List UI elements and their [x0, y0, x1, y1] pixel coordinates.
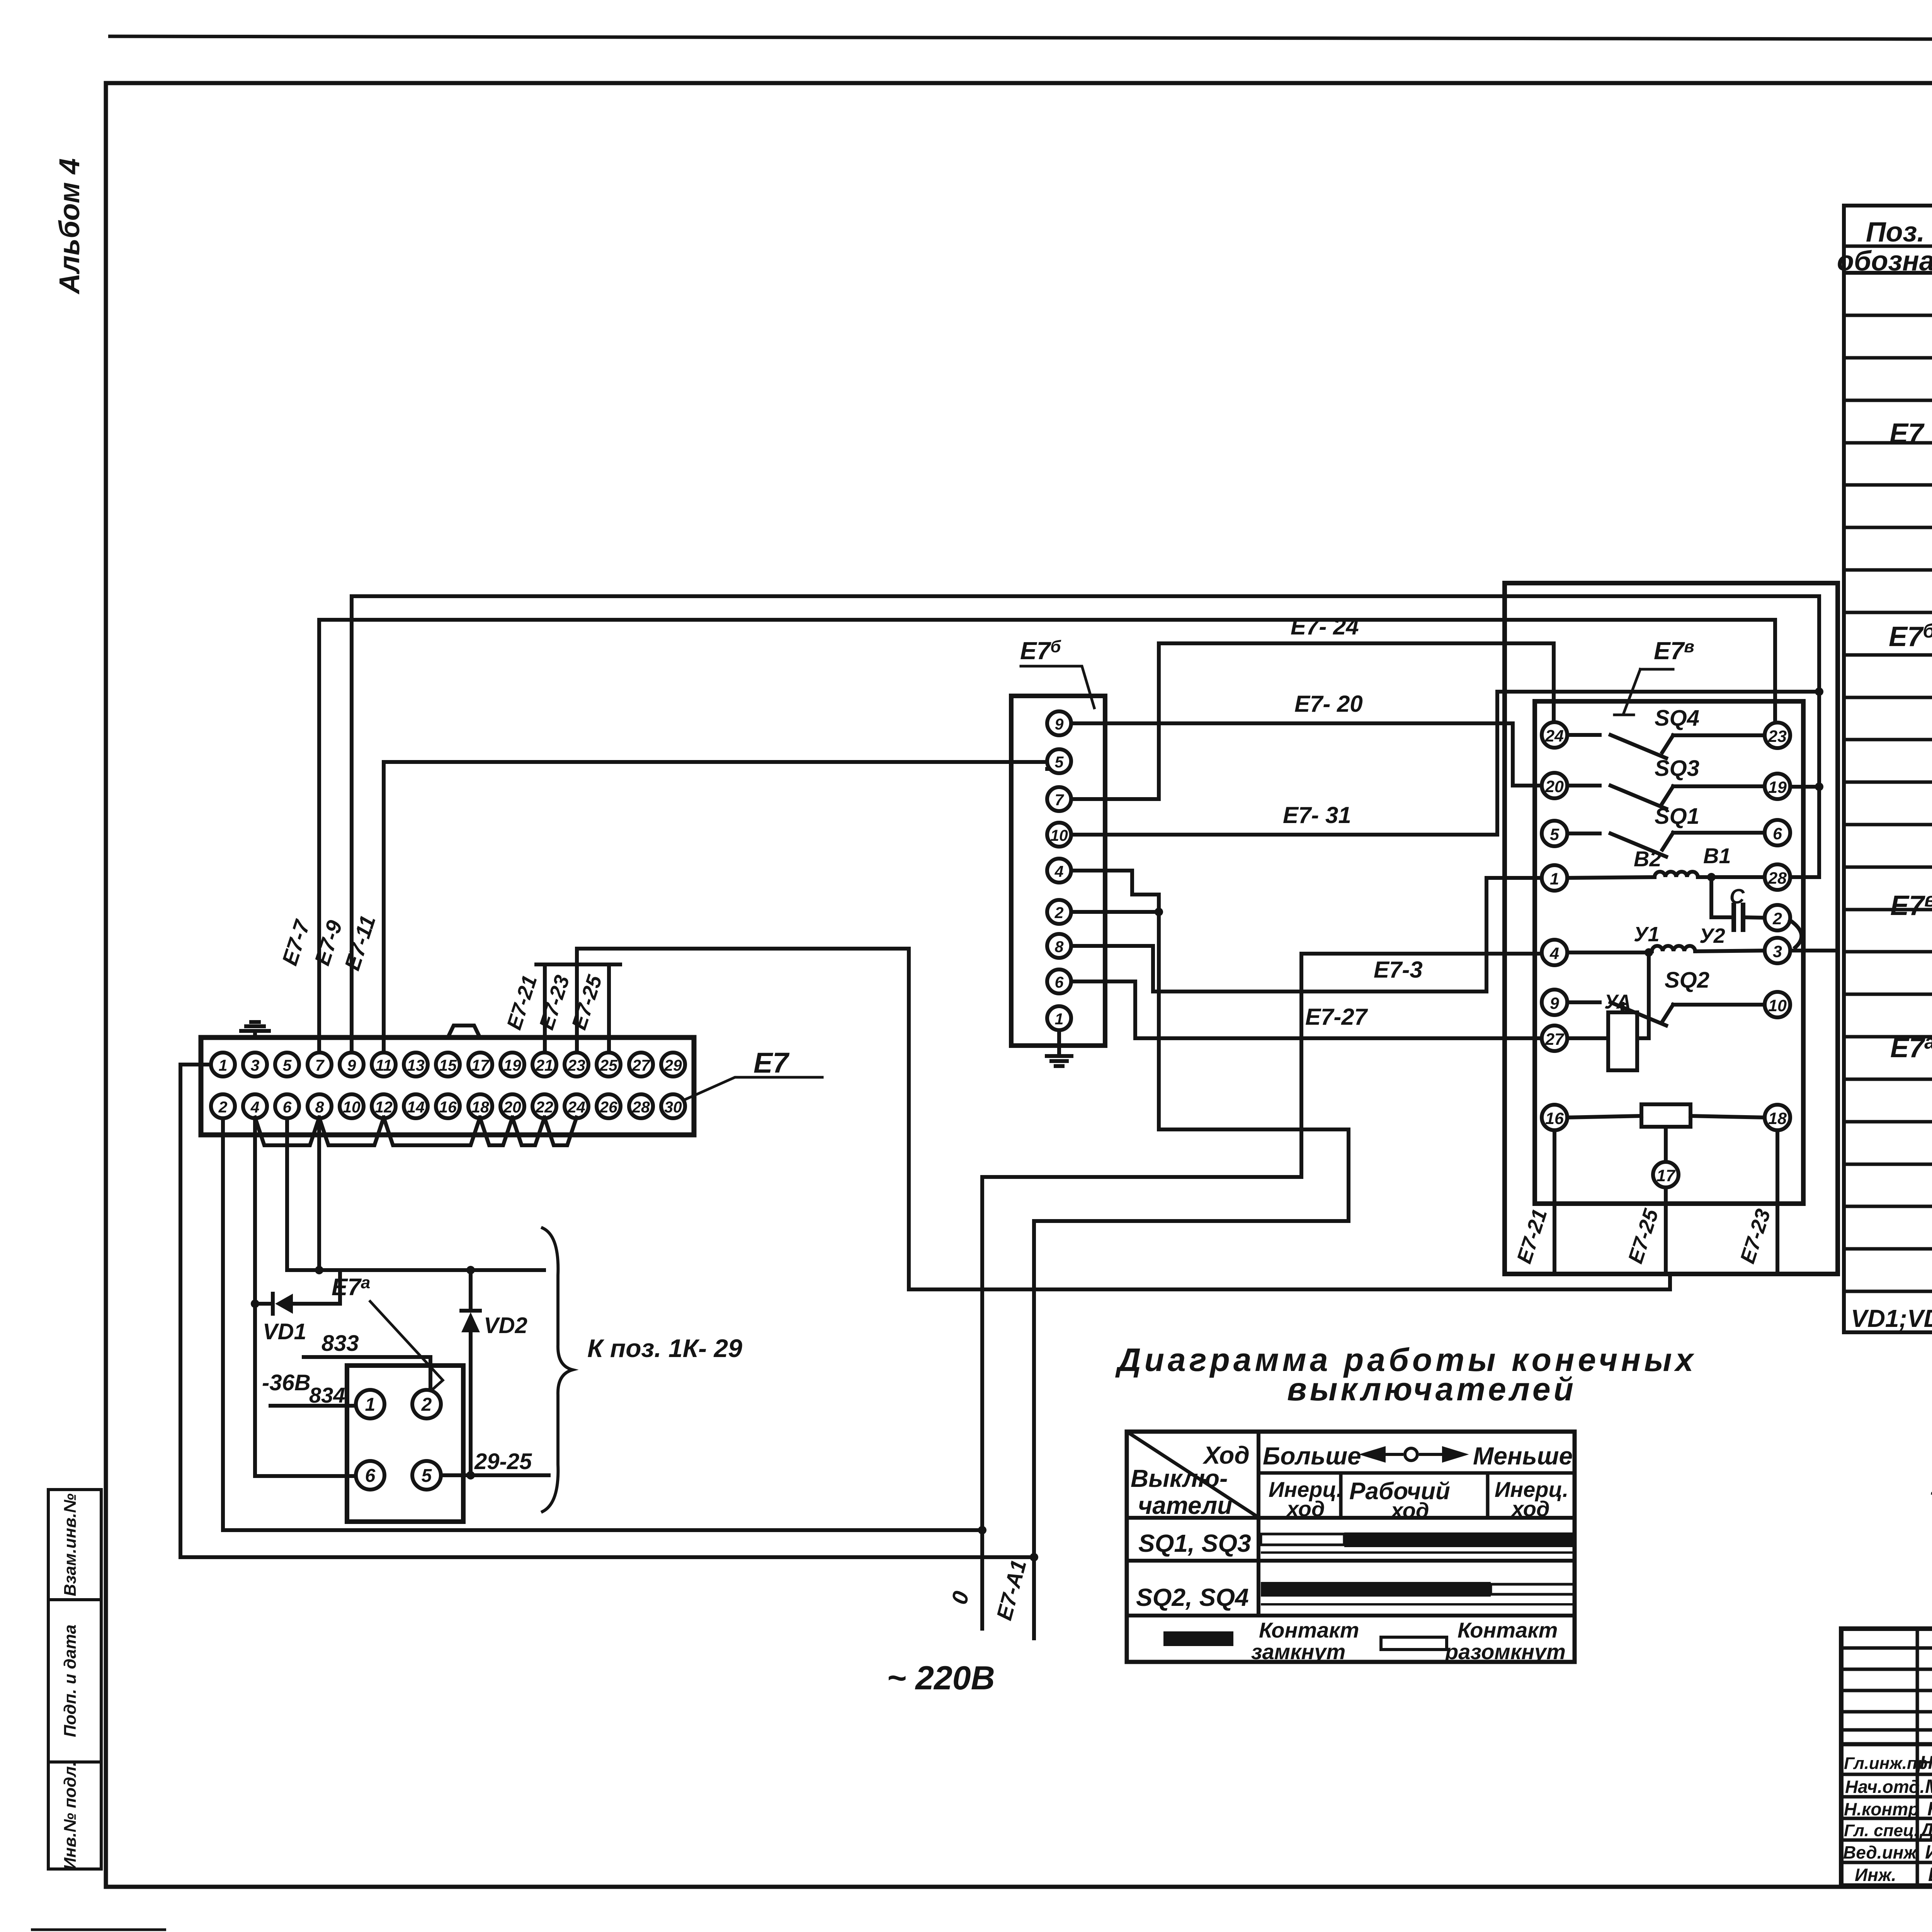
svg-text:Е7- 20: Е7- 20 — [1294, 691, 1363, 717]
svg-text:7: 7 — [1055, 791, 1065, 809]
svg-text:17: 17 — [1656, 1167, 1676, 1185]
wire E7-24 riser — [1157, 643, 1161, 799]
wire 0 to E7v:4 — [1301, 952, 1542, 956]
wire E7-24 down to 24 — [1552, 643, 1556, 722]
svg-text:Альбом 4: Альбом 4 — [53, 158, 85, 295]
svg-text:УА: УА — [1604, 991, 1631, 1013]
title block outer — [1841, 1629, 1932, 1886]
junction E7b:2/4 — [1155, 908, 1163, 916]
wire E7:2 vertical — [221, 1118, 225, 1530]
svg-text:6: 6 — [1773, 825, 1782, 843]
winding B2-B1 — [1567, 877, 1655, 878]
ground above E7 terminal 3 — [253, 1031, 257, 1037]
wire E7 terminal 21 up — [543, 964, 547, 1053]
SQ13 row bottom — [1127, 1559, 1575, 1563]
junction -36V/8 — [315, 1266, 323, 1274]
svg-text:1: 1 — [219, 1056, 228, 1074]
E7 terminal 16 — [436, 1094, 460, 1118]
svg-text:26: 26 — [599, 1098, 618, 1116]
wire E7:1 left stub — [180, 1063, 211, 1066]
left blank row lines — [1841, 1646, 1932, 1650]
svg-text:-36В: -36В — [262, 1370, 311, 1395]
wire E7-3 to E7v:1 — [1486, 876, 1542, 880]
wire E7-9 top run — [352, 594, 1819, 598]
E7v terminal 6 — [1765, 820, 1790, 845]
svg-text:28: 28 — [632, 1098, 650, 1116]
svg-text:SQ1, SQ3: SQ1, SQ3 — [1138, 1529, 1251, 1557]
wire E7b:8 stub — [1071, 944, 1153, 948]
wire E7:2 to 0 node — [223, 1528, 982, 1532]
wire riser to E7v bus — [1668, 1274, 1672, 1289]
SQ24 open bar — [1491, 1584, 1575, 1594]
E7 terminal 22 — [532, 1094, 556, 1118]
wire VD1 up — [338, 1270, 342, 1304]
E7v terminal 16 — [1542, 1105, 1567, 1130]
E7 terminal 27 — [629, 1053, 653, 1077]
signature row lines — [1841, 1742, 1932, 1747]
wire E7:8 vertical — [317, 1118, 321, 1270]
svg-text:Е7-27: Е7-27 — [1305, 1004, 1368, 1030]
junction VD1 left — [251, 1299, 259, 1308]
wire E7-7 top run — [319, 618, 1775, 622]
E7v terminal 3 — [1765, 938, 1790, 963]
E7b terminal 4 — [1047, 859, 1071, 883]
svg-text:2: 2 — [421, 1395, 432, 1415]
arrow right segment — [1419, 1453, 1464, 1456]
capacitor C — [1709, 877, 1713, 917]
E7 terminal 11 — [372, 1053, 396, 1077]
svg-text:18: 18 — [1768, 1109, 1787, 1128]
svg-text:В2: В2 — [1634, 847, 1662, 871]
wire right run to 19-28 — [1817, 596, 1821, 877]
wire E7b:2 stub — [1071, 910, 1159, 914]
junction U1 — [1645, 948, 1653, 957]
wire resistor to 17 — [1664, 1127, 1668, 1161]
wire E7:4 vertical — [253, 1118, 257, 1476]
svg-text:20: 20 — [503, 1098, 521, 1116]
svg-text:Контакт: Контакт — [1259, 1618, 1359, 1642]
E7v terminal 27 — [1542, 1026, 1567, 1051]
wire long bottom run — [909, 1287, 1670, 1291]
svg-text:Выклю-: Выклю- — [1131, 1464, 1228, 1492]
E7v terminal 2 — [1765, 905, 1790, 930]
svg-text:выключателей: выключателей — [1287, 1371, 1577, 1407]
junction VD2 bottom — [466, 1471, 475, 1480]
wire 29-25 — [441, 1473, 549, 1477]
E7v terminal 24 — [1542, 722, 1567, 748]
E7v terminal 20 — [1542, 773, 1567, 798]
svg-text:9: 9 — [347, 1056, 356, 1074]
header sub line — [1844, 245, 1932, 248]
svg-text:Гл. спец.: Гл. спец. — [1844, 1821, 1919, 1840]
wire 833 — [304, 1355, 430, 1359]
roles column — [1843, 1753, 1932, 1885]
svg-text:К поз. 1К- 29: К поз. 1К- 29 — [587, 1334, 742, 1362]
svg-text:VD1;VD2: VD1;VD2 — [1851, 1304, 1932, 1332]
SQ24 thin line — [1261, 1603, 1575, 1605]
svg-text:29-25: 29-25 — [474, 1449, 532, 1474]
left section verticals — [1916, 1629, 1919, 1886]
svg-text:Нач.отд.: Нач.отд. — [1845, 1777, 1925, 1797]
wire bus to right — [577, 947, 909, 951]
E7 terminal 2 — [211, 1094, 235, 1118]
svg-text:VD2: VD2 — [484, 1313, 527, 1338]
switch SQ3 — [1567, 784, 1600, 787]
svg-text:1: 1 — [1055, 1010, 1064, 1028]
terminal 17 — [1653, 1162, 1679, 1187]
wire E7:6 vertical — [285, 1118, 289, 1270]
SQ13 closed bar — [1344, 1532, 1575, 1547]
header bottom — [1127, 1516, 1575, 1520]
actuator E7v outer box — [1505, 583, 1838, 1274]
svg-text:834: 834 — [309, 1383, 345, 1407]
wire E7-31 riser — [1495, 692, 1499, 835]
svg-text:SQ2, SQ4: SQ2, SQ4 — [1136, 1583, 1249, 1611]
E7 terminal 6 — [275, 1094, 299, 1118]
svg-text:SQ3: SQ3 — [1655, 756, 1699, 781]
svg-text:4: 4 — [1549, 944, 1559, 963]
terminal strip E7 — [201, 1037, 694, 1135]
svg-text:12: 12 — [375, 1098, 393, 1116]
bus over 21-23-25 — [536, 963, 620, 966]
E7v terminal 5 — [1542, 821, 1567, 846]
wire stub to 28 — [1790, 875, 1819, 879]
amplifier E7b box — [1011, 696, 1105, 1046]
junction 0 — [978, 1526, 986, 1534]
svg-text:Е7: Е7 — [753, 1047, 790, 1079]
E7 terminal 1 — [211, 1053, 235, 1077]
svg-text:4: 4 — [1054, 862, 1064, 880]
svg-text:Ефимова: Ефимова — [1928, 1864, 1932, 1885]
svg-text:ход: ход — [1286, 1497, 1325, 1521]
svg-text:2: 2 — [218, 1098, 228, 1116]
svg-text:Вед.инж: Вед.инж — [1843, 1842, 1917, 1862]
svg-text:Е7-3: Е7-3 — [1374, 957, 1423, 983]
junction 19 — [1815, 782, 1823, 791]
wire 0 horizontal — [982, 1175, 1301, 1179]
svg-text:27: 27 — [632, 1056, 651, 1074]
svg-text:14: 14 — [407, 1098, 425, 1116]
top paper line — [108, 36, 1932, 40]
E7 terminal 28 — [629, 1094, 653, 1118]
winding U1-U2 — [1567, 951, 1649, 954]
svg-text:У1: У1 — [1634, 923, 1660, 946]
svg-text:15: 15 — [439, 1056, 457, 1074]
svg-text:6: 6 — [283, 1098, 292, 1116]
wire E7v:3 stub — [1790, 949, 1838, 952]
wire to E7 terminal 9 — [350, 596, 354, 1053]
wire 0 vertical — [980, 1177, 984, 1629]
svg-text:ход: ход — [1390, 1498, 1429, 1522]
arrow left segment — [1364, 1453, 1403, 1456]
svg-text:Дружинина: Дружинина — [1919, 1820, 1932, 1840]
svg-text:13: 13 — [407, 1056, 425, 1074]
svg-text:обознач.: обознач. — [1837, 246, 1932, 277]
wire E7:1 to E7-A1 node — [180, 1555, 1034, 1559]
wire E7-27 jog — [1133, 981, 1137, 1038]
svg-text:Взам.инв.№: Взам.инв.№ — [61, 1493, 80, 1596]
svg-text:Н.контр: Н.контр — [1844, 1799, 1919, 1819]
wire E7 terminal 25 up — [607, 964, 611, 1053]
svg-text:3: 3 — [1773, 942, 1782, 961]
svg-text:2: 2 — [1054, 904, 1064, 922]
arrow circle — [1405, 1448, 1417, 1461]
svg-text:Индане: Индане — [1925, 1841, 1932, 1863]
svg-text:Нидбальский: Нидбальский — [1920, 1753, 1932, 1773]
svg-text:Подп. и дата: Подп. и дата — [61, 1624, 80, 1737]
E7 terminal 29 — [661, 1053, 685, 1077]
svg-text:SQ1: SQ1 — [1655, 804, 1699, 829]
E7 terminal 15 — [436, 1053, 460, 1077]
wire E7-11 run — [384, 760, 1047, 764]
svg-text:29: 29 — [664, 1056, 682, 1074]
subheader col2 — [1486, 1473, 1490, 1519]
junction E7-A1 — [1030, 1553, 1038, 1561]
svg-text:22: 22 — [535, 1098, 553, 1116]
svg-text:25: 25 — [599, 1056, 618, 1074]
wire to E7 terminal 11 — [382, 762, 386, 1053]
svg-text:23: 23 — [1768, 727, 1787, 746]
svg-text:3: 3 — [251, 1056, 260, 1074]
svg-text:10: 10 — [1050, 827, 1068, 844]
svg-text:9: 9 — [1550, 994, 1559, 1013]
svg-text:4: 4 — [250, 1098, 260, 1116]
svg-text:10: 10 — [1768, 997, 1787, 1015]
subheader top line — [1259, 1471, 1575, 1475]
wire 0 riser — [1299, 954, 1303, 1177]
svg-text:SQ2: SQ2 — [1665, 968, 1709, 993]
E7 terminal 7 — [308, 1053, 332, 1077]
wire 16 down — [1553, 1130, 1556, 1274]
svg-text:17: 17 — [471, 1056, 490, 1074]
svg-text:16: 16 — [1545, 1109, 1564, 1128]
wire to E7 terminal 7 — [317, 620, 321, 1053]
wire E7 terminal 23 up — [575, 964, 579, 1053]
svg-text:Меньше: Меньше — [1473, 1442, 1573, 1470]
E7 terminal 10 — [340, 1094, 364, 1118]
wire E7v:27 to UA — [1567, 1036, 1608, 1040]
E7a terminal 1 — [356, 1390, 384, 1418]
E7 terminal 12 — [372, 1094, 396, 1118]
jumper 2-3 — [1790, 920, 1801, 947]
switch SQ4 — [1567, 733, 1600, 737]
E7 terminal 5 — [275, 1053, 299, 1077]
svg-text:У2: У2 — [1699, 924, 1725, 947]
wire E7A1 to left — [1034, 1219, 1349, 1223]
wire E7:1 vertical — [179, 1065, 182, 1557]
wire E7-20 from E7b:9 — [1071, 721, 1513, 725]
svg-text:18: 18 — [471, 1098, 489, 1116]
svg-text:VD1: VD1 — [263, 1319, 306, 1344]
row lines — [1844, 314, 1932, 317]
svg-text:В1: В1 — [1703, 844, 1731, 868]
diode VD2 — [469, 1270, 473, 1311]
resistor 16-18 — [1567, 1116, 1641, 1117]
E7b terminal 6 — [1047, 969, 1071, 993]
svg-text:Инж.: Инж. — [1855, 1865, 1896, 1885]
svg-text:ход: ход — [1510, 1497, 1550, 1521]
E7 terminal 18 — [468, 1094, 492, 1118]
E7 terminal 3 — [243, 1053, 267, 1077]
SQ13 thin line — [1261, 1551, 1575, 1554]
main vertical divider — [1257, 1432, 1260, 1616]
svg-text:Контакт: Контакт — [1458, 1618, 1558, 1642]
svg-text:~ 220В: ~ 220В — [887, 1660, 995, 1697]
wire 18 down — [1776, 1130, 1779, 1274]
svg-text:7: 7 — [315, 1056, 325, 1074]
E7v terminal 10 — [1765, 992, 1790, 1017]
E7 terminal 8 — [308, 1094, 332, 1118]
actuator E7v inner box — [1535, 701, 1803, 1204]
E7a terminal 2 — [412, 1390, 441, 1418]
svg-text:30: 30 — [664, 1098, 682, 1116]
E7b terminal 2 — [1047, 900, 1071, 924]
header bottom — [1844, 271, 1932, 275]
diagram table outer — [1127, 1432, 1575, 1662]
wire E7-A1 terminal vertical — [1032, 1221, 1036, 1638]
E7v terminal 19 — [1765, 774, 1790, 799]
E7a terminal 5 — [412, 1461, 441, 1490]
wire E7-3 jog — [1151, 946, 1155, 992]
label E7 with leader — [685, 1077, 822, 1100]
E7 terminal 26 — [597, 1094, 621, 1118]
E7 terminal 21 — [532, 1053, 556, 1077]
svg-text:21: 21 — [535, 1056, 553, 1074]
junction E7-31 tee — [1815, 687, 1823, 696]
svg-text:8: 8 — [315, 1098, 324, 1116]
svg-text:Гл.инж.пр: Гл.инж.пр — [1844, 1754, 1928, 1773]
E7 terminal 20 — [500, 1094, 524, 1118]
E7b terminal 8 — [1047, 934, 1071, 958]
svg-text:20: 20 — [1545, 777, 1564, 796]
svg-text:С: С — [1730, 885, 1745, 908]
wire E7A1 vertical mid — [1157, 895, 1161, 1129]
E7 terminal 24 — [565, 1094, 588, 1118]
svg-text:Поз.: Поз. — [1866, 217, 1925, 248]
svg-text:24: 24 — [567, 1098, 585, 1116]
svg-text:Больше: Больше — [1263, 1442, 1361, 1470]
wire E7A1 drop — [1347, 1129, 1350, 1221]
wire E7-27 horizontal — [1135, 1036, 1542, 1040]
svg-text:2: 2 — [1772, 910, 1782, 928]
E7a terminal 6 — [356, 1461, 384, 1490]
E7v terminal 23 — [1765, 723, 1790, 748]
E7 terminal 23 — [565, 1053, 588, 1077]
E7 terminal 25 — [597, 1053, 621, 1077]
brace K poz 1K-29 — [543, 1228, 573, 1512]
svg-text:чатели: чатели — [1138, 1492, 1232, 1519]
legend closed bar — [1163, 1631, 1233, 1646]
svg-text:8: 8 — [1055, 938, 1064, 956]
svg-text:16: 16 — [439, 1098, 457, 1116]
svg-text:24: 24 — [1545, 727, 1564, 745]
svg-text:Юрис: Юрис — [1927, 1798, 1932, 1820]
wire E7b:5 left end — [1045, 767, 1049, 771]
svg-text:Инв.№ подл.: Инв.№ подл. — [61, 1762, 80, 1870]
E7b terminal 9 — [1047, 711, 1071, 735]
svg-text:10: 10 — [343, 1098, 361, 1116]
svg-text:6: 6 — [1055, 973, 1064, 991]
jumper loop E7 660-826 — [255, 1117, 319, 1145]
ground below E7b terminal 1 — [1057, 1030, 1061, 1056]
E7v terminal 28 — [1765, 864, 1790, 890]
svg-text:5: 5 — [1550, 825, 1560, 844]
svg-text:5: 5 — [1055, 753, 1064, 771]
jumper loop E7 826-993 — [319, 1117, 384, 1145]
E7b terminal 1 — [1047, 1006, 1071, 1030]
svg-text:6: 6 — [365, 1466, 376, 1486]
E7 terminal 17 — [468, 1053, 492, 1077]
wire E7b:7 stub — [1071, 797, 1159, 801]
svg-text:Е7- 31: Е7- 31 — [1283, 802, 1351, 828]
wire 17 down — [1664, 1187, 1668, 1274]
subheader col1 — [1339, 1473, 1343, 1519]
wire E7b:6 stub — [1071, 980, 1135, 983]
parts table outer — [1844, 206, 1932, 1332]
svg-text:Е7: Е7 — [1889, 418, 1925, 449]
svg-text:разомкнут: разомкнут — [1444, 1639, 1566, 1664]
wire E7-20 jog — [1511, 723, 1515, 786]
E7b terminal 10 — [1047, 823, 1071, 847]
wire -36V horizontal — [287, 1268, 544, 1272]
wire E7b:4 jog — [1130, 871, 1134, 895]
svg-text:5: 5 — [422, 1466, 432, 1486]
E7 terminal 9 — [340, 1053, 364, 1077]
wire E7-3 horizontal — [1153, 990, 1486, 993]
diagonal in header — [1127, 1432, 1259, 1517]
jumper loop E7 1409-1492 — [544, 1117, 577, 1145]
svg-text:1: 1 — [1550, 870, 1559, 888]
E7 terminal 30 — [661, 1094, 685, 1118]
wire E7-20 to 20 — [1513, 784, 1542, 787]
wire to E7a:6 — [255, 1474, 356, 1478]
jumper bump E7 15-17 — [448, 1026, 480, 1037]
jumper loop E7 1242-1326 — [480, 1117, 512, 1145]
E7v terminal 9 — [1542, 990, 1567, 1015]
jumper loop E7 1326-1409 — [512, 1117, 544, 1145]
SQ24 closed bar — [1261, 1582, 1491, 1597]
svg-text:SQ4: SQ4 — [1655, 706, 1699, 731]
wire E7b:4 jog2 — [1132, 893, 1159, 896]
switch SQ1 — [1567, 832, 1600, 835]
E7v terminal 1 — [1542, 865, 1567, 891]
svg-text:27: 27 — [1545, 1030, 1565, 1049]
svg-text:19: 19 — [503, 1056, 521, 1074]
wire U1 to UA right — [1647, 952, 1651, 1038]
wire E7-24 horizontal — [1159, 641, 1554, 645]
E7b terminal 5 — [1047, 749, 1071, 773]
legend open bar — [1381, 1637, 1447, 1650]
wire E7-3 riser — [1485, 878, 1488, 992]
E7 terminal 19 — [500, 1053, 524, 1077]
svg-text:Мейман: Мейман — [1925, 1776, 1932, 1797]
jumper loop E7 993-1242 — [384, 1117, 480, 1145]
converter E7a box — [347, 1366, 463, 1522]
E7v terminal 18 — [1765, 1105, 1790, 1130]
svg-text:5: 5 — [283, 1056, 292, 1074]
left stamp box — [48, 1490, 101, 1869]
wire down to 23 — [1773, 620, 1777, 723]
wire E7-31 top horizontal — [1497, 690, 1819, 694]
svg-text:19: 19 — [1768, 778, 1787, 797]
svg-text:23: 23 — [567, 1056, 585, 1074]
junction VD2 top — [466, 1266, 475, 1274]
wire 834 / -36V feed — [270, 1404, 356, 1408]
coil UA — [1608, 1012, 1637, 1070]
svg-text:9: 9 — [1055, 715, 1064, 733]
wire E7A1 horizontal mid — [1159, 1128, 1349, 1131]
E7v terminal 4 — [1542, 940, 1567, 965]
